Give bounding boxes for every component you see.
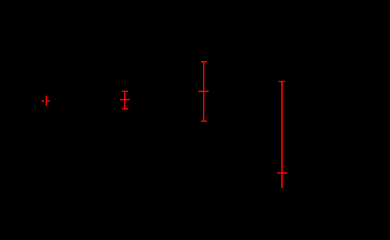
data point 4 horizontal bar: [277, 172, 287, 174]
data point 2 bottom cap: [122, 108, 128, 110]
data point 2 vertical error bar: [124, 91, 126, 109]
data point 1 vertical bar: [45, 96, 47, 106]
data point 1 right dash: [47, 100, 50, 102]
data point 4 top cap: [279, 81, 285, 83]
data point 1 dot marker: [42, 100, 44, 102]
data point 3 top cap: [201, 61, 207, 63]
data point 2 horizontal bar: [120, 99, 130, 101]
data point 4 vertical error bar: [281, 82, 283, 189]
data point 3 vertical error bar: [203, 62, 205, 121]
data point 3 horizontal bar: [199, 90, 209, 92]
data point 3 bottom cap: [201, 120, 207, 122]
data point 2 top cap: [122, 90, 128, 92]
